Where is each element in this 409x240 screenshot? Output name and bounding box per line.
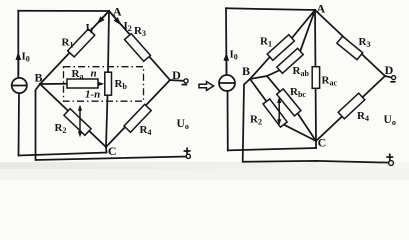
- svg-text:C: C: [108, 144, 117, 158]
- svg-text:n: n: [91, 68, 97, 80]
- wire: B to C diagonal: [40, 84, 106, 147]
- wire: C to D diagonal: [316, 76, 385, 141]
- svg-text:C: C: [318, 135, 327, 149]
- wire: left bottom wire source to C: [19, 153, 107, 156]
- wire: A to C vertical through Rb: [106, 11, 109, 147]
- big hollow arrow between circuits: [199, 82, 214, 91]
- current source I0 left: [12, 78, 27, 93]
- arrow I0 right: [225, 58, 227, 73]
- wire: A to D diagonal: [315, 10, 385, 76]
- wire: Rbc path fork to C: [267, 76, 316, 141]
- wire: D stub to minus terminal: [170, 79, 184, 82]
- resistor R4 left: [124, 104, 151, 132]
- wire: B stub to inner fork: [250, 76, 267, 79]
- arrow I0 left: [17, 57, 19, 75]
- wire: C to D diagonal: [106, 80, 170, 147]
- terminal minus left: [184, 79, 188, 83]
- svg-text:B: B: [242, 64, 250, 78]
- resistor R3 right: [337, 36, 363, 59]
- resistor Ra: [67, 79, 98, 88]
- wire: C stub down: [105, 147, 108, 153]
- arrow I1: [99, 14, 107, 23]
- resistor R1 right: [267, 35, 294, 61]
- wire: A to D diagonal: [109, 11, 170, 80]
- resistor Rab: [277, 48, 303, 73]
- wire: A to C vertical: [315, 10, 316, 141]
- svg-text:A: A: [113, 5, 122, 19]
- resistor R4 right: [338, 93, 365, 119]
- terminal minus right: [392, 76, 396, 80]
- wire: right bottom wire to C: [228, 148, 316, 150]
- wire: D stub to minus terminal: [385, 76, 391, 78]
- wire: B to A diagonal: [40, 11, 109, 84]
- wire: R1 path B to A: [250, 10, 315, 79]
- wire: right top wire: [226, 8, 315, 10]
- resistor Rb: [105, 72, 112, 95]
- svg-text:B: B: [34, 71, 42, 85]
- wire: Rab path fork to A: [267, 10, 315, 76]
- wire: left circuit left vertical (source branch): [17, 11, 19, 78]
- resistor Rbc: [277, 89, 301, 116]
- wire: B to Ra horizontal: [40, 83, 67, 85]
- variable arrow through R2 right: [278, 99, 280, 123]
- dashed box potentiometer model: [64, 67, 144, 102]
- wire: left circuit top wire: [18, 10, 109, 12]
- resistor R2 left: [64, 109, 91, 136]
- svg-text:D: D: [172, 68, 181, 82]
- arrow I2: [112, 14, 120, 22]
- current source I0 right: [219, 75, 235, 91]
- wiper arrow into Rb: [98, 83, 101, 85]
- svg-text:1-n: 1-n: [85, 89, 100, 101]
- resistor R1 left: [68, 29, 95, 57]
- wire: right left vertical source branch: [225, 8, 228, 75]
- resistor R3 left: [125, 34, 151, 62]
- wire: B to plus output: [243, 79, 389, 163]
- resistor Rac: [312, 67, 319, 89]
- wire: B down to output plus: [36, 84, 187, 160]
- variable arrow through R2 left: [79, 107, 81, 135]
- wire: right C stub: [315, 141, 317, 148]
- svg-text:A: A: [316, 1, 325, 15]
- wire: R2 path B to C: [250, 79, 316, 141]
- terminal plus right: [389, 161, 394, 166]
- resistor R2 right: [263, 99, 287, 127]
- terminal plus left: [186, 154, 190, 158]
- svg-text:D: D: [385, 63, 394, 77]
